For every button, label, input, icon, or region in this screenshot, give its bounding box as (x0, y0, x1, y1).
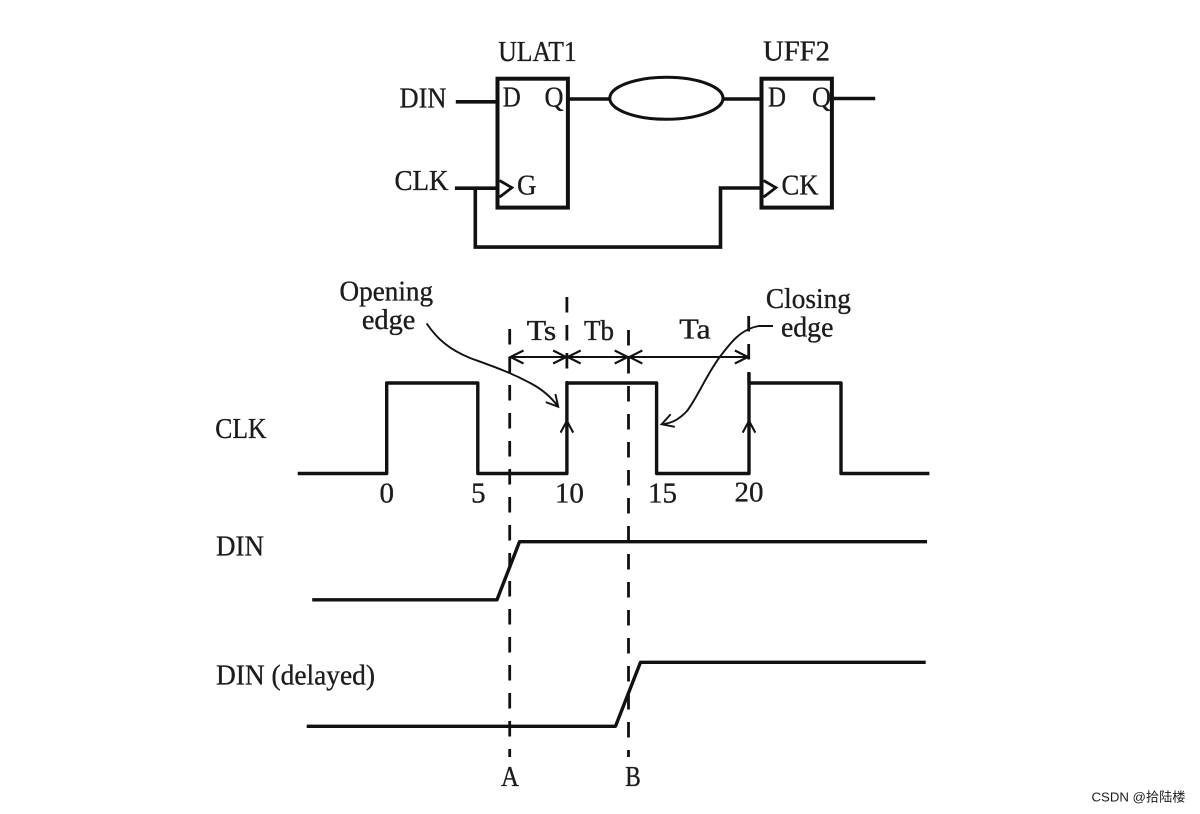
svg-text:CLK: CLK (215, 414, 267, 445)
svg-text:Tb: Tb (584, 316, 614, 347)
svg-text:ULAT1: ULAT1 (498, 37, 577, 68)
svg-text:DIN: DIN (216, 530, 264, 562)
wire CLK routing to U2.CK (475, 188, 763, 247)
svg-text:CSDN @拾陆楼: CSDN @拾陆楼 (1092, 790, 1186, 805)
svg-text:15: 15 (648, 478, 677, 510)
svg-text:DIN (delayed): DIN (delayed) (216, 659, 375, 691)
svg-text:B: B (625, 762, 641, 793)
svg-text:0: 0 (379, 478, 394, 510)
waveform CLK (298, 383, 930, 474)
combinational delay cloud (610, 77, 723, 119)
dashed line at opening edge (x=567) (566, 297, 569, 382)
svg-text:edge: edge (781, 313, 834, 344)
wire U2.Q output (832, 97, 875, 101)
svg-text:Q: Q (812, 82, 831, 114)
wire U1.Q to cloud (568, 97, 610, 101)
svg-text:Q: Q (545, 82, 564, 114)
svg-text:Opening: Opening (340, 277, 434, 308)
svg-text:UFF2: UFF2 (763, 37, 830, 68)
dimension arrow Tb (567, 356, 629, 358)
svg-text:20: 20 (735, 476, 764, 508)
wire DIN to U1.D (456, 100, 496, 104)
svg-text:G: G (517, 170, 537, 202)
flip-flop U2 clock triangle (764, 181, 776, 198)
svg-text:D: D (768, 82, 786, 114)
waveform DIN delayed (307, 662, 926, 726)
svg-text:edge: edge (362, 305, 416, 336)
rising edge arrow at 10 (561, 421, 574, 433)
flip-flop U2 body (762, 79, 832, 208)
dashed line node B (x=628.5) (627, 330, 630, 757)
waveform DIN (312, 542, 927, 600)
wire cloud to U2.D (723, 97, 762, 101)
svg-text:10: 10 (555, 478, 584, 510)
dashed line node A (x=510) (508, 329, 511, 757)
latch U1 clock triangle (500, 181, 512, 198)
svg-text:Closing: Closing (766, 284, 851, 315)
rising edge arrow at 20 (743, 421, 756, 433)
svg-text:CK: CK (782, 170, 819, 202)
leader arrow opening edge (427, 323, 558, 406)
svg-text:Ta: Ta (679, 315, 711, 346)
rising edge overshoot tick at 20 (747, 373, 750, 384)
latch U1 body (498, 79, 568, 208)
svg-text:Ts: Ts (527, 316, 557, 347)
dashed line at closing edge (x=748.7) (747, 316, 750, 382)
dimension arrow Ta (629, 356, 749, 358)
svg-text:D: D (503, 82, 521, 114)
svg-text:A: A (501, 762, 520, 793)
dimension arrow Ts (510, 356, 567, 358)
wire CLK to U1.G (455, 186, 499, 190)
svg-text:5: 5 (471, 478, 486, 510)
svg-text:CLK: CLK (395, 166, 449, 197)
leader arrow closing edge (663, 326, 773, 424)
svg-text:DIN: DIN (400, 83, 447, 115)
